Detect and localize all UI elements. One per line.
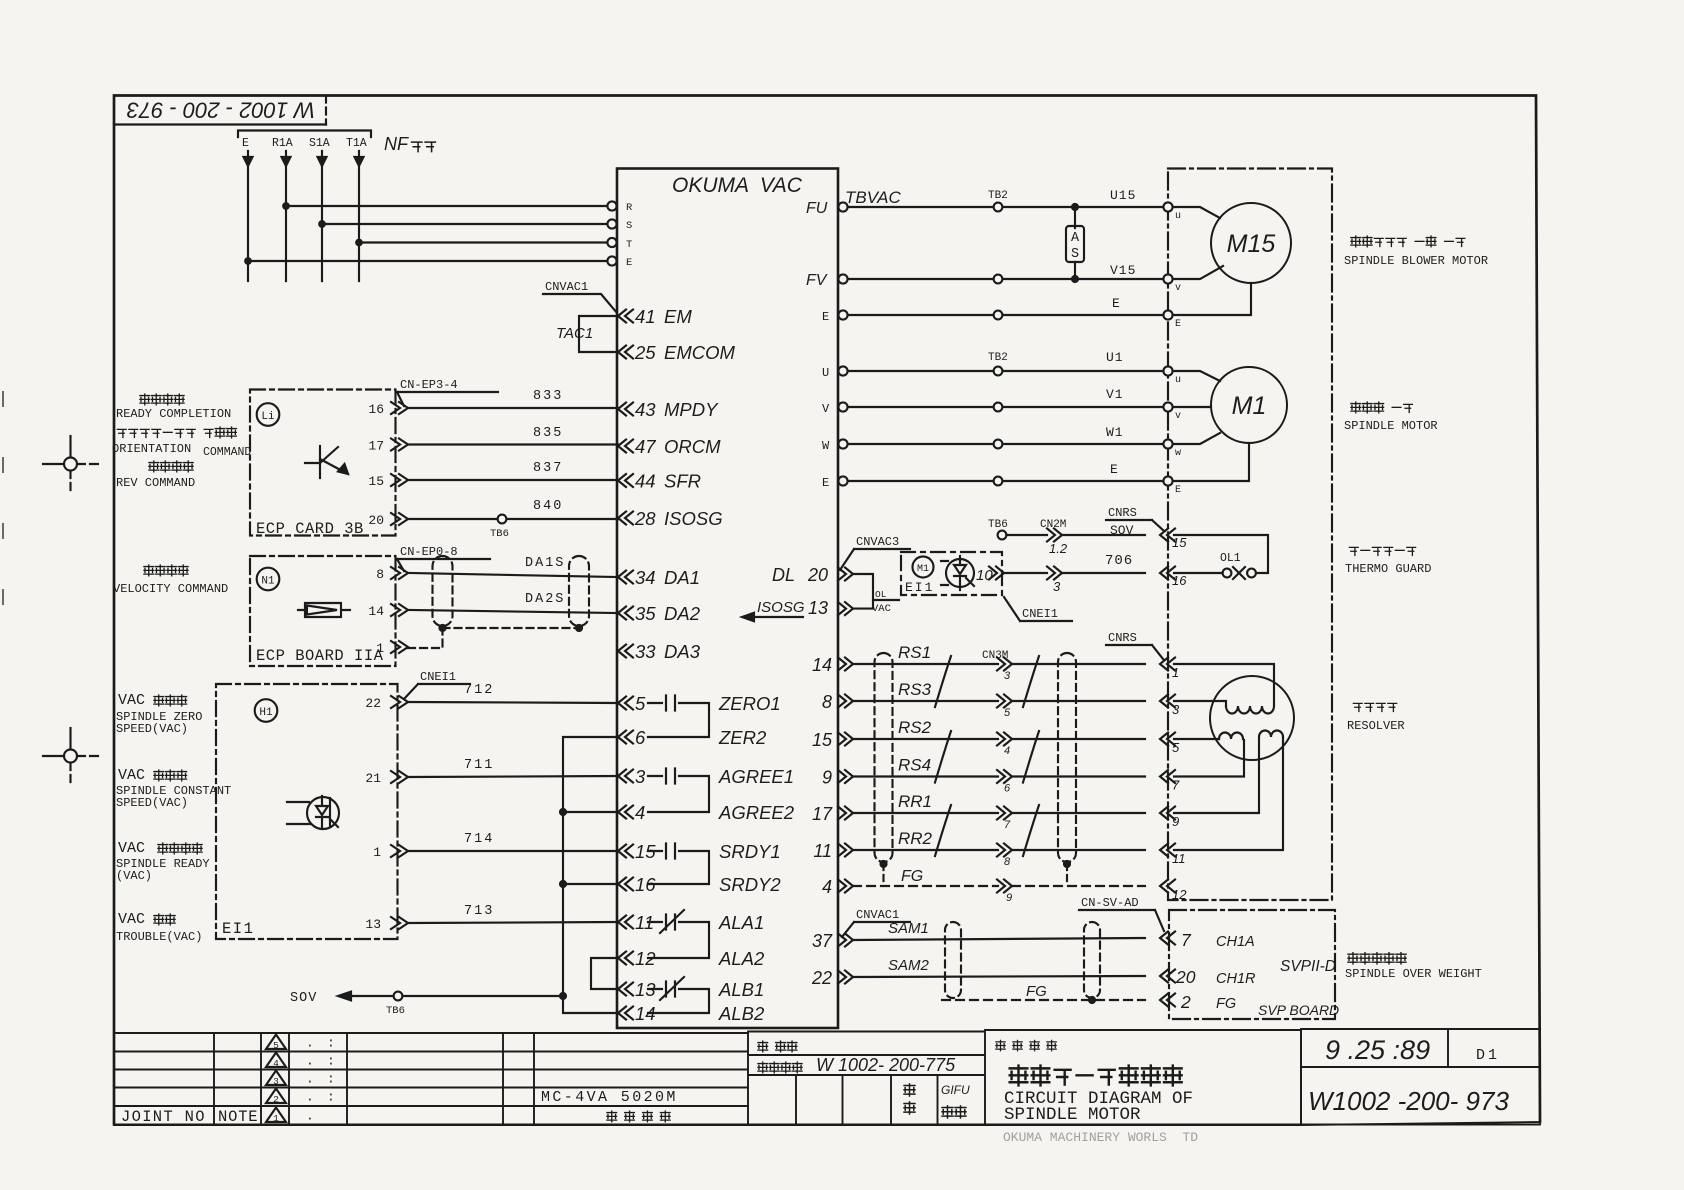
svg-text:DA2S: DA2S xyxy=(525,592,565,607)
svg-text:ALB1: ALB1 xyxy=(718,979,764,1000)
svg-text:ECP BOARD IIA: ECP BOARD IIA xyxy=(256,647,384,665)
svg-text:33: 33 xyxy=(635,641,656,662)
wire RR2 xyxy=(853,849,1145,851)
node S input terminal xyxy=(607,219,616,228)
wire RS1 xyxy=(853,663,1145,665)
svg-text:U: U xyxy=(822,366,829,380)
node pin V xyxy=(838,402,847,411)
svg-text:E: E xyxy=(242,137,249,150)
svg-text:V1: V1 xyxy=(1106,387,1124,402)
svg-text:TB6: TB6 xyxy=(490,528,509,540)
wire U1 xyxy=(848,370,1164,372)
svg-text:837: 837 xyxy=(533,461,563,476)
wire TAC1 jumper EM-EMCOM xyxy=(579,316,618,352)
svg-text:47: 47 xyxy=(635,436,656,457)
svg-text:E: E xyxy=(626,257,632,269)
svg-text:AGREE2: AGREE2 xyxy=(718,802,795,823)
wire FG resolver shield xyxy=(853,885,1145,887)
svg-text:9: 9 xyxy=(822,768,832,788)
wire input S1A xyxy=(321,151,323,281)
node pin 5 ZERO1 xyxy=(618,697,633,710)
op-amp U4 EI1 status box xyxy=(216,684,398,939)
node pin 11 ALA1 xyxy=(618,916,633,929)
svg-text:DA1: DA1 xyxy=(664,567,700,588)
wire input T1A xyxy=(358,151,360,281)
svg-text:16: 16 xyxy=(368,402,384,417)
svg-text:CNVAC1: CNVAC1 xyxy=(545,280,588,294)
node revision triangle 2 xyxy=(266,1089,286,1104)
svg-text:TB2: TB2 xyxy=(988,352,1008,364)
node label spindle-motor xyxy=(1351,402,1361,413)
op-amp U3 ECP BOARD IIA box xyxy=(250,556,396,666)
svg-text:ZERO1: ZERO1 xyxy=(718,693,781,714)
svg-text:SVP BOARD: SVP BOARD xyxy=(1258,1002,1339,1018)
wire AGREE2 return xyxy=(563,811,618,813)
wire 714 xyxy=(408,850,618,852)
wire SAM2 xyxy=(853,976,1145,977)
svg-text:u: u xyxy=(1175,375,1181,386)
node NF input bracket xyxy=(238,131,371,138)
wire resolver S3 xyxy=(1174,701,1226,706)
node TB6 terminal SOV xyxy=(998,531,1007,540)
svg-text:13: 13 xyxy=(365,917,381,932)
svg-text:3: 3 xyxy=(1172,702,1180,717)
node TB6 terminal on SOV xyxy=(394,992,403,1001)
svg-text:7: 7 xyxy=(1004,819,1011,831)
svg-text:.: . xyxy=(306,1036,314,1051)
svg-text:NOTE: NOTE xyxy=(218,1108,258,1126)
svg-text:3: 3 xyxy=(1053,579,1061,594)
svg-text:U15: U15 xyxy=(1110,188,1136,203)
node L1 designator xyxy=(257,403,280,426)
svg-text:EM: EM xyxy=(664,306,692,327)
node revision triangle 1 xyxy=(266,1108,286,1123)
wire 840 xyxy=(408,518,618,520)
op-amp U2 ECP CARD 3B box xyxy=(250,390,396,536)
node pin 28 ISOSG xyxy=(618,512,633,525)
node T input terminal xyxy=(607,238,616,247)
relay contact pair y922 xyxy=(648,922,709,958)
svg-text:SFR: SFR xyxy=(664,471,701,492)
svg-text:TBVAC: TBVAC xyxy=(845,188,901,207)
svg-text:RS3: RS3 xyxy=(898,680,932,699)
svg-text:SPEED(VAC): SPEED(VAC) xyxy=(116,722,188,736)
svg-text:835: 835 xyxy=(533,426,563,441)
capacitor-shield oval B DA wires xyxy=(569,556,589,626)
svg-text:CNVAC1: CNVAC1 xyxy=(856,908,899,922)
svg-text:9: 9 xyxy=(1172,814,1179,829)
svg-text:.: . xyxy=(306,1109,314,1124)
svg-text:SPINDLE MOTOR: SPINDLE MOTOR xyxy=(1004,1105,1141,1125)
svg-text:E: E xyxy=(822,310,829,324)
svg-text:ORCM: ORCM xyxy=(664,436,721,457)
node pin 15 SRDY1 xyxy=(618,845,633,858)
svg-text:SPEED(VAC): SPEED(VAC) xyxy=(116,796,188,810)
svg-text:T: T xyxy=(626,239,632,251)
wire W1 xyxy=(848,443,1164,445)
svg-text:14: 14 xyxy=(368,604,384,619)
svg-text:.: . xyxy=(306,1054,314,1069)
svg-text:TB2: TB2 xyxy=(988,190,1008,202)
svg-text:25: 25 xyxy=(634,342,656,363)
wire twist mark x1031 y813 xyxy=(1023,805,1039,856)
svg-text:ISOSG: ISOSG xyxy=(757,599,805,616)
node pin W xyxy=(838,439,847,448)
svg-text:711: 711 xyxy=(464,758,494,773)
op-amp U5 EI1 thermostat box xyxy=(901,552,1002,595)
svg-text:E: E xyxy=(1110,462,1119,477)
node doc-number box xyxy=(114,123,326,125)
svg-text:S: S xyxy=(626,220,632,232)
wire SOV output xyxy=(560,993,566,999)
svg-text:ORIENTATION: ORIENTATION xyxy=(112,442,191,456)
svg-text:M15: M15 xyxy=(1227,230,1276,258)
svg-text:OKUMA VAC: OKUMA VAC xyxy=(672,174,803,197)
svg-text:1: 1 xyxy=(373,845,381,860)
svg-text:CNEI1: CNEI1 xyxy=(1022,607,1058,621)
wire resolver S4 xyxy=(1174,740,1244,777)
wire shield drain to pin1 xyxy=(408,626,579,648)
wire M1 v xyxy=(1173,406,1211,408)
svg-text:3: 3 xyxy=(1004,670,1011,682)
svg-text:EI1: EI1 xyxy=(222,920,254,938)
svg-text:5: 5 xyxy=(1004,707,1011,719)
wire E-blower xyxy=(848,314,1164,316)
svg-text:S1A: S1A xyxy=(309,137,330,150)
svg-text:D1: D1 xyxy=(1476,1047,1500,1064)
svg-text:V: V xyxy=(822,402,830,416)
node registration mark y464 xyxy=(64,458,77,471)
node pin 44 SFR xyxy=(618,474,633,487)
svg-text:OKUMA MACHINERY WORLS TD: OKUMA MACHINERY WORLS TD xyxy=(1003,1130,1198,1145)
svg-text:15: 15 xyxy=(368,474,384,489)
resolver rotor winding left xyxy=(1219,733,1243,739)
svg-text:4: 4 xyxy=(1004,745,1010,757)
capacitor-shield oval A DA wires xyxy=(433,556,453,626)
capacitor-shield oval C resolver xyxy=(875,653,893,862)
svg-text:28: 28 xyxy=(634,508,656,529)
wire return bus xyxy=(563,737,618,1013)
wire M15 v xyxy=(1173,266,1223,279)
svg-text:15: 15 xyxy=(812,730,833,750)
svg-text:4: 4 xyxy=(635,802,645,823)
svg-text:1: 1 xyxy=(376,641,384,656)
wire SRDY2 return xyxy=(563,883,618,885)
node title block grid xyxy=(114,1033,1540,1125)
svg-text:v: v xyxy=(1175,411,1181,422)
svg-text:5: 5 xyxy=(635,693,646,714)
svg-text:U1: U1 xyxy=(1106,350,1124,365)
svg-text:VAC: VAC xyxy=(118,840,145,857)
node R input terminal xyxy=(607,201,616,210)
node pin FV xyxy=(838,274,847,283)
node pin 34 DA1 xyxy=(618,571,633,584)
svg-text::: : xyxy=(327,1054,335,1069)
svg-text:9: 9 xyxy=(1006,892,1012,904)
svg-text:713: 713 xyxy=(464,904,494,919)
wire T feed xyxy=(359,241,611,243)
node label ready-completion xyxy=(140,394,150,405)
wire input E xyxy=(247,151,249,281)
wire R feed xyxy=(286,205,611,207)
svg-text:4: 4 xyxy=(822,877,832,897)
svg-text:11: 11 xyxy=(1172,851,1186,866)
node revision triangle 5 xyxy=(266,1035,286,1050)
svg-text:13: 13 xyxy=(808,598,828,618)
svg-text:SOV: SOV xyxy=(290,991,317,1006)
svg-text:ALA2: ALA2 xyxy=(718,948,765,969)
wire RS4 xyxy=(853,775,1145,777)
resolver rotor winding right xyxy=(1259,731,1283,737)
svg-text:SVPII-D: SVPII-D xyxy=(1280,958,1336,975)
motor M15 spindle blower xyxy=(1211,203,1291,283)
svg-text:37: 37 xyxy=(812,931,833,951)
node pin 43 MPDY xyxy=(618,403,633,416)
node pin 6 ZER2 xyxy=(618,731,633,744)
svg-text:T1A: T1A xyxy=(346,137,367,150)
wire M15 u xyxy=(1173,207,1220,218)
svg-text:FU: FU xyxy=(806,200,828,217)
svg-text:M1: M1 xyxy=(917,564,929,575)
svg-text:840: 840 xyxy=(533,499,563,514)
relay contact pair y703 xyxy=(648,703,709,737)
svg-text:DL: DL xyxy=(772,565,795,585)
svg-text:CN3M: CN3M xyxy=(982,650,1008,662)
svg-text:9 .25 :89: 9 .25 :89 xyxy=(1325,1035,1430,1065)
svg-text:ALA1: ALA1 xyxy=(718,912,764,933)
relay contact pair y989 xyxy=(648,989,709,1013)
svg-text:44: 44 xyxy=(635,471,656,492)
node pin 35 DA2 xyxy=(618,607,633,620)
svg-text:5: 5 xyxy=(1172,740,1180,755)
resolver stator winding xyxy=(1226,706,1274,714)
svg-text:RS4: RS4 xyxy=(898,756,931,775)
wire OL-VAC loop xyxy=(853,574,873,609)
svg-text:Li: Li xyxy=(261,411,275,423)
svg-text:NF: NF xyxy=(384,134,409,154)
node label orientation-command xyxy=(117,429,126,437)
wire resolver R2 xyxy=(1174,738,1283,850)
svg-text:SRDY2: SRDY2 xyxy=(719,874,781,895)
svg-text:RESOLVER: RESOLVER xyxy=(1347,719,1405,733)
svg-text:VAC: VAC xyxy=(872,603,891,615)
svg-text:TB6: TB6 xyxy=(386,1005,405,1017)
svg-text:FG: FG xyxy=(1026,983,1047,1000)
node pin E-blower xyxy=(838,310,847,319)
relay contact pair y776 xyxy=(648,776,709,812)
relay contact pair y851 xyxy=(648,851,709,884)
node pin 3 AGREE1 xyxy=(618,770,633,783)
svg-text:SRDY1: SRDY1 xyxy=(719,841,781,862)
svg-text::: : xyxy=(327,1090,335,1105)
node pin 20 CH1R xyxy=(1160,970,1175,983)
svg-text:u: u xyxy=(1175,211,1181,222)
node revision triangle 3 xyxy=(266,1071,286,1086)
thermal switch OL1 xyxy=(1174,535,1268,573)
svg-text:w: w xyxy=(1175,448,1181,459)
svg-text:E: E xyxy=(1112,296,1121,311)
wire 833 xyxy=(408,407,618,409)
wire ALA2-ALB1 jumper xyxy=(591,958,618,989)
svg-text:15: 15 xyxy=(1172,535,1187,550)
svg-text:CNRS: CNRS xyxy=(1108,631,1137,645)
svg-text:READY COMPLETION: READY COMPLETION xyxy=(116,407,231,421)
node blower terminal E xyxy=(1163,310,1172,319)
svg-text:CN-SV-AD: CN-SV-AD xyxy=(1081,896,1139,910)
node E input terminal xyxy=(607,256,616,265)
wire FU-U15 xyxy=(848,206,1164,208)
svg-text:833: 833 xyxy=(533,389,563,404)
svg-text:2: 2 xyxy=(1180,992,1191,1012)
svg-text:TB6: TB6 xyxy=(988,519,1008,531)
node pin 25 EMCOM xyxy=(618,346,633,359)
svg-text::: : xyxy=(327,1036,335,1051)
svg-text:E: E xyxy=(1175,319,1181,330)
node pin 13 ALB1 xyxy=(618,983,633,996)
node pin 41 EM xyxy=(618,310,633,323)
wire M1 w xyxy=(1173,433,1220,444)
wire twist mark x943 y664 xyxy=(935,656,951,707)
svg-text:SPINDLE BLOWER MOTOR: SPINDLE BLOWER MOTOR xyxy=(1344,254,1488,268)
svg-text:CNEI1: CNEI1 xyxy=(420,670,456,684)
svg-text:VELOCITY COMMAND: VELOCITY COMMAND xyxy=(113,582,228,596)
svg-text:20: 20 xyxy=(807,565,828,585)
svg-text:8: 8 xyxy=(1004,856,1011,868)
wire SOV to CNRS15 xyxy=(1006,534,1145,536)
svg-text:JOINT NO: JOINT NO xyxy=(121,1108,206,1126)
wire M1 u xyxy=(1173,371,1220,381)
wire 837 xyxy=(408,479,618,481)
svg-text:W1002 -200- 973: W1002 -200- 973 xyxy=(1308,1086,1509,1116)
wire resolver S1 xyxy=(1174,664,1274,704)
wire RS3 xyxy=(853,700,1145,702)
node blower terminal v xyxy=(1163,274,1172,283)
fuse AS surge absorber xyxy=(1072,204,1078,210)
svg-text:VAC: VAC xyxy=(118,692,145,709)
svg-text:MPDY: MPDY xyxy=(664,399,719,420)
node label spindle-blower-motor xyxy=(1351,236,1361,247)
node machine boundary box xyxy=(1168,169,1332,901)
node pin E-motor xyxy=(838,476,847,485)
svg-text:11: 11 xyxy=(813,841,832,861)
svg-text:1.2: 1.2 xyxy=(1049,541,1068,556)
node motor terminal E xyxy=(1163,476,1172,485)
svg-text:3: 3 xyxy=(635,766,646,787)
node pin 15 CNRS xyxy=(1160,529,1175,542)
svg-text:E: E xyxy=(822,476,829,490)
svg-text:5: 5 xyxy=(273,1040,279,1051)
svg-text:N1: N1 xyxy=(261,576,275,588)
svg-text:FG: FG xyxy=(901,868,923,885)
node pin 16 CNRS xyxy=(1160,567,1175,580)
motor M1 spindle motor xyxy=(1211,367,1287,443)
svg-text:FG: FG xyxy=(1216,996,1236,1012)
svg-text:714: 714 xyxy=(464,832,494,847)
node label velocity-command xyxy=(144,565,154,576)
svg-text:RR2: RR2 xyxy=(898,829,933,848)
node motor terminal v xyxy=(1163,402,1172,411)
wire M15 E xyxy=(1173,283,1251,315)
svg-text:706: 706 xyxy=(1105,553,1133,569)
svg-text:W 1002 - 200 - 973: W 1002 - 200 - 973 xyxy=(126,98,315,123)
wire resolver R1 xyxy=(1174,738,1259,813)
svg-text:35: 35 xyxy=(635,603,656,624)
svg-text:14: 14 xyxy=(812,655,832,675)
svg-text:712: 712 xyxy=(464,683,494,698)
svg-text:E: E xyxy=(1175,485,1181,496)
node TB6 terminal on wire 840 xyxy=(498,515,507,524)
wire 713 xyxy=(408,922,618,923)
svg-text:MC-4VA 5020M: MC-4VA 5020M xyxy=(541,1089,678,1106)
svg-text:FV: FV xyxy=(806,272,828,289)
svg-text:CH1R: CH1R xyxy=(1216,971,1256,987)
svg-text:SOV: SOV xyxy=(1110,523,1134,538)
wire 712 xyxy=(408,702,618,703)
svg-text:VAC: VAC xyxy=(118,767,145,784)
node pin 4 AGREE2 xyxy=(618,806,633,819)
node blower terminal u xyxy=(1163,202,1172,211)
svg-text:17: 17 xyxy=(812,804,833,824)
wire twist mark x943 y739 xyxy=(935,731,951,783)
node pin 16 SRDY2 xyxy=(618,878,633,891)
svg-text:6: 6 xyxy=(1004,783,1011,795)
svg-text:17: 17 xyxy=(368,439,384,454)
wire M1 E xyxy=(1173,443,1249,481)
wire input R1A xyxy=(285,151,287,281)
op-amp U6 SVP board box xyxy=(1169,910,1335,1019)
node label rev-command xyxy=(149,461,159,472)
svg-text:(VAC): (VAC) xyxy=(116,869,152,883)
svg-text:VAC: VAC xyxy=(118,911,145,928)
wire V1 xyxy=(848,406,1164,408)
svg-text:1: 1 xyxy=(1172,665,1179,680)
svg-text:OL1: OL1 xyxy=(1220,552,1241,565)
wire S feed xyxy=(322,223,611,225)
op-amp U1 OKUMA VAC drive unit box xyxy=(617,169,838,1029)
node pin 12 ALA2 xyxy=(618,952,633,965)
svg-text:21: 21 xyxy=(365,771,381,786)
svg-text:V15: V15 xyxy=(1110,263,1136,278)
wire twist mark x1031 y664 xyxy=(1023,656,1039,707)
svg-text:DA3: DA3 xyxy=(664,641,701,662)
wire twist mark x1031 y739 xyxy=(1023,731,1039,783)
svg-text:1: 1 xyxy=(273,1113,279,1124)
resolver RS1 xyxy=(1210,676,1294,760)
node title mid block xyxy=(114,1032,985,1126)
svg-text:ALB2: ALB2 xyxy=(718,1003,765,1024)
node label thermo-guard xyxy=(1349,547,1358,555)
svg-text:AGREE1: AGREE1 xyxy=(718,766,794,787)
svg-text:RR1: RR1 xyxy=(898,792,932,811)
node approval stamps xyxy=(904,1084,915,1096)
wire RR1 xyxy=(853,812,1145,814)
svg-text:RS1: RS1 xyxy=(898,643,931,662)
wire E-motor xyxy=(848,480,1164,482)
svg-text:M1: M1 xyxy=(1232,392,1267,420)
svg-text:H1: H1 xyxy=(259,707,273,719)
svg-text:W: W xyxy=(822,439,830,453)
wire 706 xyxy=(1005,572,1145,574)
svg-text:A: A xyxy=(1071,231,1080,246)
svg-text:SPINDLE MOTOR: SPINDLE MOTOR xyxy=(1344,419,1438,433)
node pin 33 DA3 xyxy=(618,645,633,658)
wire DA2S xyxy=(408,610,618,613)
node pin U xyxy=(838,366,847,375)
svg-text:DA2: DA2 xyxy=(664,603,701,624)
thermostat contact symbol xyxy=(946,559,974,587)
node revision triangle 4 xyxy=(266,1053,286,1068)
svg-text:16: 16 xyxy=(1172,573,1187,588)
